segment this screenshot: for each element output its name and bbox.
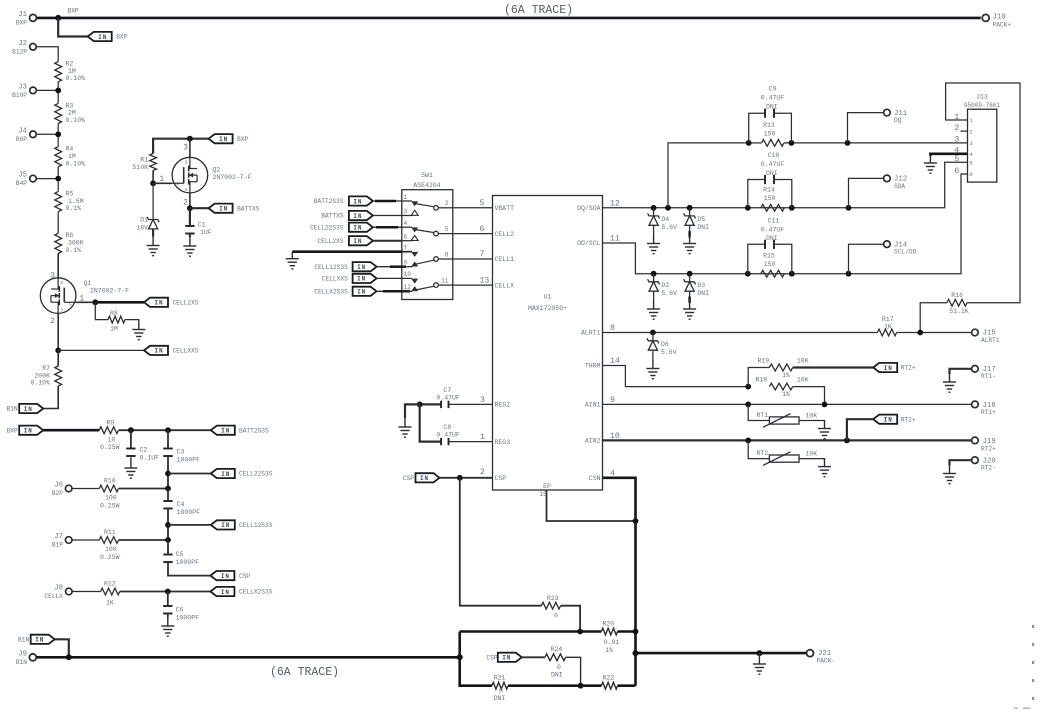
svg-text:6: 6 — [404, 234, 408, 241]
svg-text:0.25W: 0.25W — [100, 502, 120, 509]
resistor R4 1M 0.10% — [55, 146, 85, 168]
flag B1N IN lower — [18, 635, 55, 644]
svg-text:R12: R12 — [104, 581, 116, 588]
wire R5 to R6 — [57, 212, 59, 234]
flag IN CELL22S3S to SW1 pin 4 — [310, 223, 402, 232]
wire J2 to ladder — [36, 47, 58, 62]
svg-text:5: 5 — [969, 159, 973, 166]
SW1 pin numbers right — [441, 200, 449, 284]
flag IN CELL2XS — [144, 298, 199, 307]
svg-text:0.47UF: 0.47UF — [761, 226, 785, 233]
svg-text:J3: J3 — [18, 84, 27, 92]
junction D4 tap — [651, 205, 657, 211]
junction RT2 tap — [745, 438, 751, 444]
resistor R17 1K — [877, 316, 971, 336]
svg-text:B4P: B4P — [16, 180, 27, 187]
svg-text:0.47UF: 0.47UF — [761, 161, 785, 168]
junction J9 trace tap — [457, 654, 463, 660]
flag IN RT2+ lower — [847, 415, 916, 441]
svg-text:1M: 1M — [68, 153, 76, 160]
flag IN BATT2S3S to SW1 pin 1 — [314, 196, 402, 205]
capacitor C3 1000PF — [163, 449, 200, 464]
svg-text:CELL12S3S: CELL12S3S — [314, 264, 348, 271]
svg-text:12: 12 — [610, 199, 620, 208]
svg-text:BATT2S3S: BATT2S3S — [239, 427, 269, 434]
svg-text:PACK-: PACK- — [817, 658, 836, 665]
svg-text:(6A TRACE): (6A TRACE) — [270, 666, 339, 679]
svg-text:0: 0 — [557, 664, 561, 671]
wire riser DQ net to R13 row — [668, 143, 749, 208]
ground at C6 — [161, 617, 174, 636]
svg-text:CELLXXS: CELLXXS — [173, 348, 199, 355]
wire from J1 junction down to BXP flag — [58, 18, 87, 37]
svg-text:150: 150 — [764, 130, 776, 137]
SW1 pole 1 contacts and lever — [402, 201, 453, 216]
svg-text:J13: J13 — [976, 94, 988, 101]
svg-text:IN: IN — [357, 289, 366, 296]
wire R3 to J4 node — [57, 124, 59, 147]
svg-text:CELLX2S3S: CELLX2S3S — [239, 589, 273, 596]
svg-text:0.25W: 0.25W — [100, 444, 120, 451]
wire C1 lead — [189, 208, 191, 226]
junction REG2 cap node — [417, 402, 423, 408]
resistor R13 150 — [762, 122, 785, 147]
svg-text:9: 9 — [404, 260, 408, 267]
resistor R18 10K 1% — [756, 376, 825, 404]
svg-text:0.1%: 0.1% — [66, 205, 82, 212]
junction J12 tap — [846, 205, 852, 211]
junction R11 node — [165, 537, 171, 543]
flag IN CELL22S3S — [211, 469, 273, 478]
svg-text:0.47UF: 0.47UF — [436, 432, 460, 439]
svg-text:3: 3 — [404, 208, 408, 215]
flag IN CELLX2S3S — [210, 587, 272, 596]
resistor R1 510K — [132, 154, 156, 171]
flag IN BATTXS — [209, 204, 260, 213]
wire R10 to C4 node — [119, 488, 169, 490]
wire J13 pin 2 stub — [961, 130, 968, 132]
capacitor C6 1000PF — [163, 592, 199, 622]
svg-text:R13: R13 — [763, 122, 775, 129]
flag IN BATTXS to SW1 pin 3 — [321, 211, 402, 220]
svg-text:CELL2: CELL2 — [495, 231, 515, 238]
svg-text:IN: IN — [98, 34, 107, 41]
wire J14 riser — [849, 244, 884, 274]
svg-text:R10: R10 — [104, 478, 116, 485]
svg-text:0.10%: 0.10% — [66, 160, 86, 167]
svg-text:3: 3 — [480, 396, 485, 405]
junction R10 node — [165, 486, 171, 492]
svg-text:IN: IN — [154, 348, 163, 355]
wire J8 to R12 — [72, 591, 101, 593]
zener D6 5.6V — [647, 333, 677, 360]
ground at RT2 — [818, 459, 831, 477]
svg-text:B6P: B6P — [16, 136, 27, 143]
J13 inner pin numbers — [969, 117, 973, 178]
svg-text:DNI: DNI — [551, 672, 563, 679]
svg-text:6: 6 — [480, 225, 485, 234]
U1 right pin names — [577, 205, 601, 482]
svg-text:RT2+: RT2+ — [981, 445, 996, 452]
svg-text:IN: IN — [221, 573, 230, 580]
svg-text:6: 6 — [954, 167, 959, 176]
zener D4 5.6V — [648, 208, 678, 235]
svg-text:C9: C9 — [769, 86, 777, 93]
svg-text:AIN1: AIN1 — [585, 402, 601, 409]
svg-text:RT2: RT2 — [757, 450, 769, 457]
junction C10 right — [789, 205, 795, 211]
svg-text:12: 12 — [404, 284, 412, 291]
junction C9 right — [789, 140, 795, 146]
svg-text:IN: IN — [221, 589, 230, 596]
connector J1 — [16, 11, 37, 27]
svg-text:R19: R19 — [758, 357, 770, 364]
wire cap node to ground — [405, 404, 420, 418]
svg-text:D2: D2 — [661, 282, 669, 289]
svg-text:D4: D4 — [661, 216, 669, 223]
svg-text:5: 5 — [445, 226, 449, 233]
zener D5 DNI — [684, 208, 710, 238]
connector J11 — [884, 109, 908, 124]
svg-text:100: 100 — [105, 495, 117, 502]
svg-text:BATT2S3S: BATT2S3S — [314, 198, 344, 205]
junction R21 R24 R22 node — [578, 683, 584, 689]
svg-text:CSN: CSN — [589, 475, 601, 482]
svg-text:10: 10 — [610, 432, 620, 441]
svg-text:1M: 1M — [110, 326, 118, 333]
zener D2 5.6V — [648, 274, 678, 300]
wire R13 row to J13 pin 3 — [749, 142, 968, 144]
wire CELL22S3S node to flag — [168, 473, 211, 475]
svg-text:S: S — [185, 188, 188, 193]
capacitor C11 0.47UF DNI — [748, 217, 792, 273]
svg-text:C8: C8 — [443, 424, 451, 431]
svg-text:2: 2 — [50, 317, 55, 326]
flag BXP IN to R9 — [7, 426, 44, 435]
svg-text:IN: IN — [353, 213, 362, 220]
resistor R24 0 DNI — [522, 646, 581, 686]
connector J20 — [950, 457, 996, 472]
wire J6 to R10 — [72, 488, 99, 490]
svg-text:R3: R3 — [66, 102, 74, 109]
label 6A TRACE bottom — [270, 666, 339, 679]
svg-text:B12P: B12P — [12, 48, 27, 55]
svg-text:D5: D5 — [697, 216, 705, 223]
svg-text:B1N: B1N — [18, 637, 29, 644]
svg-text:RT1: RT1 — [757, 412, 769, 419]
resistor R16 51.1K — [920, 292, 969, 332]
connector J9 — [16, 650, 36, 666]
svg-text:C6: C6 — [176, 607, 184, 614]
transistor Q1 2N7002-7-F — [40, 272, 129, 326]
svg-text:DNI: DNI — [494, 695, 506, 702]
svg-text:0.1%: 0.1% — [66, 247, 82, 254]
svg-text:B1N: B1N — [16, 659, 27, 666]
svg-text:1%: 1% — [782, 372, 790, 379]
wire U1 AIN2 pin 10 row — [603, 432, 972, 441]
svg-text:IN: IN — [353, 225, 362, 232]
capacitor C5 1000PF — [163, 540, 199, 566]
svg-text:BATTXS: BATTXS — [321, 213, 344, 220]
wire sense loop top row — [460, 630, 602, 633]
wire U1 AIN1 pin 9 row — [603, 396, 972, 405]
svg-text:R17: R17 — [882, 316, 894, 323]
resistor R15 150 — [761, 253, 785, 278]
resistor R2 1M 0.10% — [55, 61, 85, 83]
wire U1 OD/SCL pin 11 row — [603, 174, 968, 274]
ground at RT1 — [818, 421, 831, 439]
svg-text:IN: IN — [884, 365, 893, 372]
ground at D2 — [647, 300, 660, 319]
junction D5 tap — [687, 205, 693, 211]
resistor R11 100 0.25W — [99, 529, 119, 561]
svg-text:J5: J5 — [18, 172, 27, 180]
wire J13 pin 1 loop to R16 — [946, 83, 1020, 303]
junction J14 tap — [846, 271, 852, 277]
svg-text:11: 11 — [610, 235, 620, 244]
thermistor RT2 10K — [748, 440, 824, 465]
svg-text:VBATT: VBATT — [495, 205, 515, 212]
wire R7 to B1N flag — [43, 386, 58, 409]
capacitor C2 0.1UF — [126, 447, 159, 462]
svg-text:IN: IN — [35, 637, 44, 644]
wire R1 to gate node — [152, 171, 154, 184]
svg-text:IN: IN — [219, 206, 228, 213]
svg-text:14: 14 — [610, 357, 620, 366]
resistor R20 0.01 1% — [601, 620, 635, 654]
svg-text:U1: U1 — [544, 294, 552, 301]
flag IN BATT2S3S — [211, 426, 269, 435]
svg-text:PACK+: PACK+ — [993, 21, 1012, 28]
resistor R9 10 0.25W — [99, 419, 119, 451]
flag IN CELL12S3S — [211, 520, 273, 529]
svg-text:D1: D1 — [140, 217, 148, 224]
svg-text:C3: C3 — [177, 449, 185, 456]
wire CSP net to R23 — [460, 478, 542, 606]
junction C11 left — [745, 271, 751, 277]
ground at D1 — [147, 237, 160, 256]
wire to C2 — [130, 430, 132, 448]
resistor R8 1M — [95, 302, 139, 332]
svg-text:10K: 10K — [797, 357, 809, 364]
svg-text:BXP: BXP — [16, 20, 27, 27]
connector J19 — [972, 437, 997, 452]
svg-text:5: 5 — [480, 199, 485, 208]
svg-text:AIN2: AIN2 — [585, 438, 601, 445]
svg-text:D: D — [60, 281, 63, 286]
svg-text:J1: J1 — [18, 11, 27, 19]
svg-text:300K: 300K — [68, 240, 84, 247]
wire BXP 6A trace J1 to J10 — [36, 17, 981, 20]
svg-text:51.1K: 51.1K — [949, 308, 969, 315]
junction THRM node — [745, 384, 751, 390]
junction J5 node — [55, 176, 61, 182]
svg-text:7: 7 — [404, 245, 408, 252]
svg-text:7: 7 — [480, 250, 485, 259]
wire R9 to BATT2S3S flag — [119, 429, 211, 431]
svg-text:CSP: CSP — [239, 573, 250, 580]
svg-text:0: 0 — [554, 613, 558, 620]
svg-text:5.6V: 5.6V — [661, 224, 677, 231]
flag IN CELLXXS to SW1 pin 10 — [322, 274, 402, 283]
svg-text:11: 11 — [441, 278, 449, 285]
wire J13 pin 4 to ground — [930, 154, 967, 156]
wire sense loop left side — [460, 632, 492, 686]
svg-text:RT1+: RT1+ — [981, 409, 996, 416]
svg-text:1M: 1M — [68, 68, 76, 75]
svg-text:R8: R8 — [110, 310, 118, 317]
ground at R8 — [132, 321, 145, 340]
junction R20 CSN node — [633, 629, 639, 635]
junction C3 tap — [165, 427, 171, 433]
junction Q2 drain top — [187, 136, 193, 142]
svg-text:8: 8 — [610, 324, 615, 333]
svg-text:0.10%: 0.10% — [66, 75, 86, 82]
thermistor RT1 10K — [748, 404, 824, 427]
svg-text:R20: R20 — [603, 620, 615, 627]
svg-text:5.6V: 5.6V — [661, 290, 677, 297]
resistor R3 2M 0.10% — [55, 102, 85, 124]
svg-text:1: 1 — [159, 175, 164, 184]
connector J7 — [52, 533, 72, 549]
flag IN CELL2XS to SW1 pin 6 — [318, 236, 402, 245]
frame tick marks right edge — [1014, 625, 1034, 709]
svg-text:10: 10 — [108, 436, 116, 443]
svg-text:3: 3 — [183, 143, 188, 152]
flag IN BXP at J1 — [88, 32, 128, 41]
flag IN CSP lower-left — [210, 571, 250, 580]
svg-text:J7: J7 — [54, 533, 63, 541]
junction J3 node — [55, 88, 61, 94]
svg-text:J8: J8 — [54, 585, 63, 593]
svg-text:150: 150 — [764, 261, 776, 268]
svg-text:1%: 1% — [605, 647, 613, 654]
connector J4 — [16, 127, 58, 142]
svg-text:2: 2 — [954, 124, 959, 133]
connector J10 — [982, 14, 1011, 29]
capacitor C7 0.47UF — [420, 387, 493, 408]
node BXP — [68, 8, 79, 15]
svg-text:DNI: DNI — [766, 170, 778, 177]
svg-text:C4: C4 — [177, 501, 185, 508]
svg-text:CELL2XS: CELL2XS — [173, 300, 199, 307]
junction C10 left — [745, 205, 751, 211]
svg-text:C10: C10 — [768, 152, 780, 159]
resistor R22 0 — [581, 675, 636, 690]
svg-text:BATTXS: BATTXS — [237, 205, 260, 212]
flag IN CELLX2S3S to SW1 pin 12 — [314, 287, 410, 296]
svg-text:C1: C1 — [198, 222, 206, 229]
svg-text:REG3: REG3 — [495, 439, 511, 446]
J13 outer pin numbers — [954, 113, 959, 176]
svg-text:150: 150 — [764, 195, 776, 202]
svg-text:CSP: CSP — [495, 475, 507, 482]
resistor R21 0 DNI — [492, 675, 581, 702]
resistor R14 150 — [761, 187, 785, 212]
svg-text:B10P: B10P — [12, 92, 27, 99]
svg-text:J10: J10 — [993, 14, 1006, 22]
svg-text:B2P: B2P — [52, 490, 63, 497]
svg-text:SW1: SW1 — [421, 172, 433, 179]
wire C3 to CELL22S3S node — [167, 456, 169, 489]
wire CSN bus to J21 — [636, 652, 807, 655]
svg-text:CELL1: CELL1 — [495, 256, 515, 263]
svg-text:Q1: Q1 — [84, 280, 92, 287]
svg-text:13: 13 — [480, 276, 490, 285]
junction BATTXS node — [187, 205, 193, 211]
zener D3 DNI — [684, 274, 710, 303]
junction B1N flag tap — [66, 654, 72, 660]
svg-text:R23: R23 — [547, 595, 559, 602]
ground at C2 — [124, 459, 137, 478]
wire J11 riser — [848, 113, 884, 143]
svg-text:C2: C2 — [140, 447, 148, 454]
junction CELLX2S3S node — [165, 589, 171, 595]
junction C9 left — [746, 140, 752, 146]
svg-text:CELLX2S3S: CELLX2S3S — [314, 289, 348, 296]
resistor R5 1.5M 0.1% — [55, 191, 84, 213]
svg-text:95009-7661: 95009-7661 — [964, 102, 1000, 109]
svg-text:1.5M: 1.5M — [68, 198, 84, 205]
connector J13 95009-7661 body — [964, 94, 1000, 182]
svg-text:C11: C11 — [768, 217, 780, 224]
connector J5 — [16, 172, 58, 187]
wire J12 riser — [849, 178, 884, 207]
svg-text:3: 3 — [969, 140, 973, 147]
svg-text:ASE4204: ASE4204 — [413, 182, 440, 189]
svg-text:SDA: SDA — [894, 183, 905, 190]
wire R11 to C5 node — [119, 539, 169, 541]
svg-text:2: 2 — [445, 200, 449, 207]
svg-text:0: 0 — [499, 688, 503, 695]
ground at J20 — [943, 466, 956, 484]
wire R12 to CELLX2S3S node — [120, 591, 211, 593]
svg-text:1000PF: 1000PF — [177, 457, 201, 464]
connector J18 — [972, 401, 997, 416]
svg-text:4: 4 — [969, 151, 973, 158]
svg-text:4: 4 — [404, 220, 408, 227]
wire R4 to J5 node — [57, 167, 59, 192]
svg-text:2: 2 — [480, 468, 485, 477]
svg-text:R1: R1 — [140, 157, 148, 164]
svg-text:2N7002-7-F: 2N7002-7-F — [90, 287, 129, 294]
op-amp U1 MAX17205G+ body — [493, 196, 603, 491]
flag IN BXP at Q2 — [209, 134, 249, 143]
junction Q1 gate node — [92, 299, 98, 305]
svg-text:C7: C7 — [443, 387, 451, 394]
SW1 pole 4 contacts and lever — [402, 278, 453, 291]
ground at C1 — [183, 237, 196, 256]
ground at D3 — [683, 300, 696, 319]
junction riser tap — [665, 205, 671, 211]
svg-text:BXP: BXP — [7, 427, 18, 434]
svg-text:THRM: THRM — [585, 363, 601, 370]
junction J4 node — [55, 131, 61, 137]
svg-text:1: 1 — [480, 433, 485, 442]
junction CSP net tap — [457, 475, 463, 481]
svg-text:0.47UF: 0.47UF — [761, 95, 785, 102]
SW1 pin numbers left — [404, 194, 412, 291]
svg-text:RT1-: RT1- — [981, 373, 996, 380]
svg-text:5.6V: 5.6V — [661, 349, 677, 356]
svg-text:R18: R18 — [756, 376, 768, 383]
ground at SW1 pin 7 — [286, 252, 299, 269]
svg-text:REG2: REG2 — [495, 402, 511, 409]
svg-text:10K: 10K — [805, 413, 817, 420]
svg-text:0.1UF: 0.1UF — [140, 455, 160, 462]
wire SW1 pin 5 to U1 CELL2 pin 6 — [453, 225, 493, 234]
connector J6 — [52, 482, 72, 498]
